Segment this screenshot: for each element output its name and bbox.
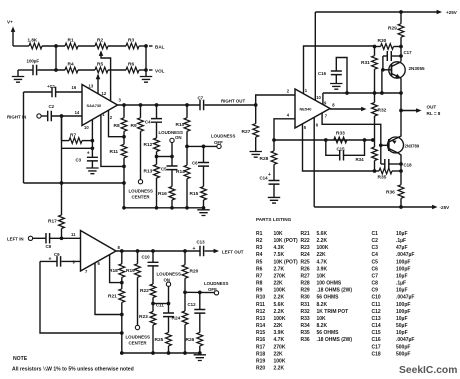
svg-text:LOUDNESS: LOUDNESS: [129, 189, 153, 194]
resistor R22: [152, 266, 154, 284]
svg-text:.1µF: .1µF: [396, 238, 406, 244]
capacitor C5: [167, 166, 178, 170]
junction: [120, 351, 124, 355]
capacitor C12: [199, 292, 201, 309]
junction: [144, 68, 148, 72]
junction: [202, 206, 206, 210]
wire: [157, 156, 173, 158]
svg-text:100K: 100K: [274, 316, 286, 322]
svg-text:R6: R6: [256, 266, 263, 272]
junction: [136, 249, 140, 253]
resistor R8: [123, 105, 125, 118]
svg-text:C15: C15: [337, 147, 346, 152]
op-amp U2 left channel: [81, 231, 117, 272]
capacitor C11: [163, 313, 174, 317]
svg-text:270K: 270K: [274, 344, 286, 350]
svg-text:R3: R3: [256, 245, 263, 251]
pin 1 wire: [101, 115, 124, 167]
svg-text:C8: C8: [372, 281, 379, 287]
junction: [198, 291, 202, 295]
svg-text:R4: R4: [68, 62, 74, 68]
svg-text:C17: C17: [404, 50, 413, 55]
svg-text:100pF: 100pF: [396, 309, 410, 315]
svg-text:R35: R35: [378, 175, 387, 181]
svg-text:R27: R27: [301, 273, 310, 279]
junction: [183, 290, 187, 294]
ground: [197, 210, 209, 216]
svg-text:1.8K: 1.8K: [28, 38, 38, 43]
svg-text:R23: R23: [301, 245, 310, 251]
svg-text:R13: R13: [256, 316, 265, 322]
svg-text:R25: R25: [301, 259, 310, 265]
svg-text:NOTE: NOTE: [13, 356, 28, 362]
wire: [38, 69, 66, 71]
wire: [61, 116, 63, 141]
V+ arrow: [12, 29, 14, 46]
capacitor C15 loop: [326, 140, 340, 155]
wire: [62, 147, 93, 149]
resistor R9: [140, 105, 142, 118]
svg-text:R34: R34: [301, 323, 310, 329]
svg-text:4.7K: 4.7K: [317, 259, 328, 265]
resistor R19: [137, 251, 139, 264]
junction: [373, 91, 377, 95]
wire C17 to base: [382, 56, 384, 70]
svg-text:10µF: 10µF: [396, 316, 408, 322]
svg-text:3.9K: 3.9K: [274, 330, 285, 336]
svg-text:C6: C6: [372, 266, 379, 272]
svg-text:22K: 22K: [274, 323, 284, 329]
svg-text:C17: C17: [372, 344, 381, 350]
capacitor C14: [269, 181, 280, 185]
junction: [151, 249, 155, 253]
svg-text:11: 11: [71, 232, 76, 237]
svg-text:+25V: +25V: [446, 10, 458, 15]
wire: [51, 115, 82, 117]
resistor R36: [398, 185, 404, 199]
svg-text:4.7K: 4.7K: [274, 337, 285, 343]
svg-text:10K: 10K: [317, 273, 327, 279]
pin 9 wire: [322, 93, 324, 104]
svg-text:R36: R36: [301, 337, 310, 343]
svg-text:R31: R31: [361, 60, 370, 66]
wire: [139, 69, 146, 71]
svg-text:10K (POT): 10K (POT): [274, 259, 299, 265]
svg-text:C11: C11: [156, 303, 164, 308]
wire: [205, 104, 256, 106]
svg-text:10µF: 10µF: [396, 273, 408, 279]
wire: [78, 45, 95, 47]
resistor R17: [61, 183, 63, 215]
svg-text:R27: R27: [242, 129, 251, 135]
junction: [120, 281, 124, 285]
svg-text:LOUDNESS: LOUDNESS: [126, 334, 150, 339]
svg-text:C13: C13: [197, 240, 206, 245]
junction: [399, 169, 403, 173]
svg-text:OUT: OUT: [427, 104, 437, 109]
svg-text:.0047µF: .0047µF: [396, 295, 414, 301]
svg-text:C7: C7: [372, 273, 379, 279]
svg-text:100µF: 100µF: [27, 59, 40, 64]
capacitor C10: [152, 251, 154, 262]
resistor R27: [255, 105, 257, 124]
svg-text:R30: R30: [378, 38, 387, 44]
svg-text:10K: 10K: [317, 316, 327, 322]
svg-text:R14: R14: [176, 169, 185, 175]
wire: [24, 182, 125, 184]
svg-text:R12: R12: [256, 309, 265, 315]
resistor R23: [150, 312, 156, 326]
resistor R10: [186, 105, 188, 118]
junction: [379, 143, 383, 147]
svg-text:R28: R28: [301, 281, 310, 287]
wire: [61, 116, 63, 183]
wire emitter: [400, 78, 402, 110]
svg-text:LOUDNESS: LOUDNESS: [211, 134, 235, 139]
svg-text:C18: C18: [404, 162, 413, 167]
svg-text:10K (POT): 10K (POT): [274, 238, 299, 244]
junction: [144, 44, 148, 48]
junction: [122, 181, 126, 185]
node VOL: [149, 69, 153, 71]
svg-text:R11: R11: [110, 149, 119, 155]
pin 4 wire: [274, 119, 295, 140]
svg-text:C10: C10: [372, 295, 381, 301]
junction: [60, 236, 64, 240]
svg-text:R24: R24: [301, 252, 310, 258]
node OUT: [399, 109, 403, 113]
svg-text:C16: C16: [318, 71, 327, 76]
svg-text:100pF: 100pF: [396, 259, 410, 265]
svg-text:C5: C5: [372, 259, 379, 265]
svg-text:R19: R19: [256, 358, 265, 364]
junction: [122, 135, 126, 139]
svg-text:R2: R2: [256, 238, 263, 244]
svg-text:R22: R22: [301, 238, 310, 244]
wire: [42, 45, 65, 47]
capacitor C2: [48, 111, 52, 122]
svg-text:R33: R33: [336, 131, 345, 137]
svg-text:R23: R23: [139, 314, 148, 320]
capacitor C4: [156, 105, 158, 119]
svg-text:R5: R5: [256, 259, 263, 265]
svg-text:10µF: 10µF: [396, 231, 408, 237]
junction: [155, 103, 159, 107]
junction: [254, 103, 258, 107]
svg-text:R34: R34: [356, 157, 365, 162]
resistor R1: [65, 43, 78, 49]
junction: [54, 44, 58, 48]
svg-text:R28: R28: [260, 156, 269, 162]
svg-text:R16: R16: [158, 191, 167, 197]
op-amp U1 SAA730: [82, 85, 118, 126]
svg-text:R9: R9: [131, 123, 137, 129]
wire: [56, 91, 82, 93]
svg-text:C16: C16: [372, 337, 381, 343]
capacitor C9: [40, 260, 57, 262]
svg-text:R11: R11: [256, 302, 265, 308]
junction: [170, 206, 174, 210]
svg-text:3.9K: 3.9K: [317, 266, 328, 272]
junction: [151, 351, 155, 355]
ground: [250, 152, 262, 158]
svg-text:R10: R10: [256, 295, 265, 301]
op-amp U3 NE540: [295, 89, 330, 128]
svg-text:LEFT OUT: LEFT OUT: [222, 249, 244, 254]
wire: [62, 260, 81, 262]
svg-text:56 OHMS: 56 OHMS: [317, 330, 340, 336]
junction: [324, 138, 328, 142]
resistor R11: [123, 137, 125, 145]
capacitor C7: [200, 100, 204, 111]
svg-text:R17: R17: [256, 344, 265, 350]
svg-text:SeekIC.com: SeekIC.com: [399, 365, 457, 376]
node LEFT OUT: [205, 250, 217, 252]
svg-text:C13: C13: [372, 316, 381, 322]
svg-text:ON: ON: [175, 135, 182, 140]
junction: [183, 249, 187, 253]
junction: [381, 68, 385, 72]
pin 6 wire: [313, 117, 315, 207]
junction: [183, 351, 187, 355]
svg-text:10: 10: [84, 125, 89, 130]
resistor R30: [375, 46, 381, 48]
svg-text:R5: R5: [97, 62, 103, 68]
svg-text:R1: R1: [256, 231, 263, 237]
svg-text:+: +: [49, 256, 52, 262]
wire: [55, 46, 57, 70]
pin 10 wire: [91, 120, 93, 141]
wire: [13, 45, 29, 47]
junction: [60, 181, 64, 185]
wire +25V rail: [315, 11, 439, 13]
junction: [122, 165, 126, 169]
resistor R33: [334, 137, 347, 143]
pin 7 wire: [322, 113, 381, 164]
svg-text:R24: R24: [172, 316, 181, 322]
junction: [399, 91, 403, 95]
junction: [120, 331, 124, 335]
svg-text:V+: V+: [7, 20, 13, 25]
svg-text:R14: R14: [256, 323, 265, 329]
svg-text:R26: R26: [186, 337, 195, 343]
wire: [145, 46, 147, 77]
capacitor C6: [203, 146, 205, 162]
wire bottom bus right channel: [124, 207, 204, 209]
wire: [78, 69, 95, 71]
junction: [272, 138, 276, 142]
svg-text:VOL: VOL: [155, 68, 165, 73]
R2 wiper wire to pin 12: [101, 52, 111, 101]
capacitor C17: [383, 55, 387, 57]
svg-text:2.2K: 2.2K: [317, 238, 328, 244]
svg-text:R3: R3: [128, 38, 134, 44]
svg-text:2.2K: 2.2K: [274, 309, 285, 315]
wire: [139, 45, 146, 47]
wire to pin 2: [256, 95, 295, 105]
junction: [91, 139, 95, 143]
wire: [273, 184, 275, 197]
svg-text:100K: 100K: [317, 245, 329, 251]
svg-text:R13: R13: [144, 169, 153, 175]
svg-text:R29: R29: [388, 26, 397, 32]
svg-text:C3: C3: [372, 245, 379, 251]
capacitor C13: [200, 246, 204, 257]
junction: [399, 54, 403, 58]
feedback wire from C1: [23, 92, 25, 183]
resistor R28: [273, 140, 275, 151]
wire pin 9 bus: [323, 92, 401, 94]
ground: [86, 168, 98, 174]
capacitor C8: [46, 233, 50, 244]
svg-text:C18: C18: [372, 351, 381, 357]
svg-text:R15: R15: [190, 191, 199, 197]
resistor R15: [203, 166, 205, 186]
wire emitter Q2: [399, 111, 402, 138]
svg-text:BAL: BAL: [155, 44, 165, 49]
svg-text:R35: R35: [301, 330, 310, 336]
wire: [185, 291, 214, 293]
svg-text:R2: R2: [97, 38, 103, 44]
resistor R31: [374, 47, 376, 56]
svg-text:R17: R17: [48, 219, 57, 225]
wire: [50, 237, 81, 239]
pin 7 wire: [95, 263, 122, 315]
svg-text:.18 OHMS (2W): .18 OHMS (2W): [317, 288, 353, 294]
junction: [120, 249, 124, 253]
junction: [60, 114, 64, 118]
svg-text:5.6K: 5.6K: [274, 302, 285, 308]
resistor R20: [184, 251, 186, 265]
svg-text:LEFT IN: LEFT IN: [7, 236, 24, 241]
wire output node right channel: [118, 104, 201, 106]
svg-text:R32: R32: [378, 108, 387, 114]
svg-text:CENTER: CENTER: [129, 340, 148, 345]
junction: [399, 162, 403, 166]
node LOUDNESS CENTER left: [135, 325, 139, 329]
junction: [363, 138, 367, 142]
wire: [153, 303, 169, 305]
svg-text:C2: C2: [49, 104, 55, 109]
svg-text:R12: R12: [144, 142, 153, 148]
junction: [399, 10, 403, 14]
svg-text:R18: R18: [109, 268, 118, 274]
wire: [41, 115, 48, 117]
junction: [91, 146, 95, 150]
wire output node left channel: [116, 250, 200, 252]
resistor R2 (pot): [95, 43, 108, 49]
C9 feedback wire: [40, 261, 122, 333]
svg-text:.0047µF: .0047µF: [396, 337, 414, 343]
svg-text:PARTS LISTING: PARTS LISTING: [256, 217, 292, 222]
svg-text:R31: R31: [301, 302, 310, 308]
svg-text:.1µF: .1µF: [396, 281, 406, 287]
svg-text:R16: R16: [256, 337, 265, 343]
junction: [139, 103, 143, 107]
junction: [371, 138, 375, 142]
svg-text:C9: C9: [372, 288, 379, 294]
feedback wire: [274, 139, 373, 141]
wire: [187, 145, 217, 147]
svg-text:RL = 8: RL = 8: [427, 111, 441, 116]
pin 10 wire: [314, 12, 316, 101]
svg-text:22K: 22K: [274, 351, 284, 357]
resistor R14: [186, 146, 188, 165]
svg-text:8.2K: 8.2K: [317, 323, 328, 329]
transistor Q1 2N3055: [389, 62, 405, 78]
svg-text:R22: R22: [140, 288, 149, 294]
svg-text:13: 13: [89, 84, 94, 89]
svg-text:10µF: 10µF: [396, 288, 408, 294]
pin 5 wire: [303, 124, 375, 171]
junction: [122, 103, 126, 107]
svg-text:C4: C4: [372, 252, 379, 258]
wire: [108, 45, 126, 47]
capacitor C1: [24, 91, 53, 93]
resistor R34: [372, 147, 378, 161]
svg-text:100 OHMS: 100 OHMS: [317, 281, 342, 287]
junction: [345, 91, 349, 95]
svg-text:270K: 270K: [274, 273, 286, 279]
svg-text:R30: R30: [301, 295, 310, 301]
junction: [373, 45, 377, 49]
svg-text:+: +: [87, 150, 90, 156]
svg-text:C12: C12: [372, 309, 381, 315]
svg-text:C3: C3: [76, 158, 82, 163]
svg-text:R6: R6: [128, 62, 134, 68]
junction: [399, 205, 403, 209]
svg-text:R21: R21: [301, 231, 310, 237]
svg-text:12: 12: [102, 91, 107, 96]
pin 2 wire: [109, 110, 125, 136]
svg-text:22K: 22K: [317, 252, 327, 258]
wire collector Q2: [399, 153, 402, 185]
svg-text:C15: C15: [372, 330, 381, 336]
wire base drop: [381, 70, 383, 93]
resistor R32 (trim pot): [330, 108, 363, 110]
junction: [155, 155, 159, 159]
svg-text:C9: C9: [54, 252, 60, 257]
svg-text:All resistors ¼W 1% to 5% unle: All resistors ¼W 1% to 5% unless otherwi…: [12, 366, 134, 373]
svg-text:C11: C11: [372, 302, 381, 308]
junction: [155, 206, 159, 210]
svg-text:47µF: 47µF: [396, 245, 408, 251]
svg-text:10pF: 10pF: [396, 330, 408, 336]
svg-text:LOUDNESS: LOUDNESS: [157, 272, 181, 277]
svg-text:C10: C10: [142, 255, 151, 260]
svg-text:500pF: 500pF: [396, 351, 410, 357]
svg-text:R25: R25: [155, 337, 164, 343]
node LOUDNESS CENTER right: [138, 180, 142, 184]
svg-text:56 OHMS: 56 OHMS: [317, 295, 340, 301]
resistor R25: [168, 317, 170, 333]
svg-text:4.3K: 4.3K: [274, 245, 285, 251]
svg-text:C2: C2: [372, 238, 379, 244]
svg-text:100K: 100K: [274, 358, 286, 364]
junction: [185, 145, 189, 149]
svg-text:NE540: NE540: [300, 106, 312, 111]
capacitor C3: [87, 157, 98, 161]
R5 wiper wire to pin 13: [97, 75, 99, 94]
resistor R7: [69, 138, 82, 144]
resistor R21: [121, 283, 123, 289]
junction: [185, 103, 189, 107]
resistor R6: [126, 67, 139, 73]
svg-text:+: +: [268, 172, 271, 178]
svg-text:LOUDNESS: LOUDNESS: [204, 281, 228, 286]
svg-text:500pF: 500pF: [396, 344, 410, 350]
transistor Q2 2N3789: [388, 137, 404, 153]
